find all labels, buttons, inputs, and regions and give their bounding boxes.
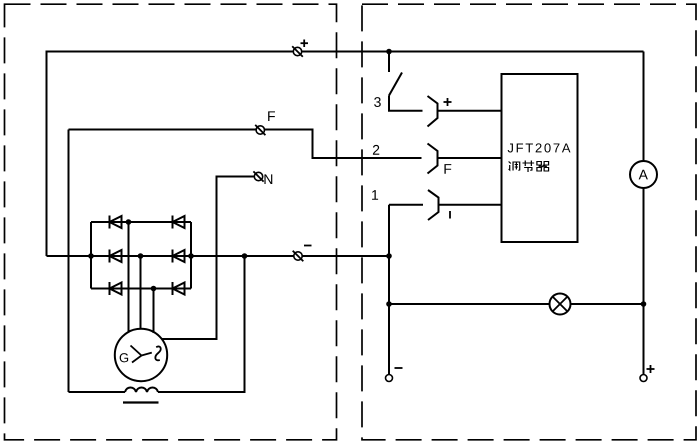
- wire phase 2 (bridge to stator): [140, 256, 142, 329]
- wire bridge row 1: [91, 221, 191, 223]
- terminal + (circle with slash): [292, 46, 303, 57]
- generator star (Y) symbol: [131, 346, 152, 363]
- label F: [268, 111, 275, 121]
- field coil core line: [123, 401, 159, 403]
- junction node minus bus/drop: [386, 253, 392, 259]
- label 2: [373, 145, 379, 155]
- ammeter A: [630, 161, 657, 188]
- wire connector 2 to regulator: [438, 157, 502, 159]
- junction node phase3/row3: [151, 286, 157, 292]
- label + (battery plus): [647, 365, 655, 373]
- diode D5 (row3 left): [110, 282, 122, 295]
- wire connector 1 to regulator: [439, 204, 502, 206]
- connector 1 socket: [428, 190, 439, 220]
- label regulator (Chinese: tiao jie qi): [509, 161, 549, 173]
- wire bridge row 3: [91, 288, 191, 290]
- vehicle compartment dashed enclosure: [362, 4, 696, 440]
- wire regulator minus drop to battery minus: [388, 205, 390, 375]
- wire field coil return to minus bus: [158, 256, 245, 392]
- diode D4 (row2 right): [173, 250, 185, 263]
- connector 3 socket: [428, 96, 438, 127]
- label 3: [374, 97, 381, 107]
- charge indicator lamp: [550, 294, 571, 315]
- label A (ammeter): [639, 170, 648, 180]
- diode D1 (row1 left): [110, 216, 122, 229]
- label 1: [372, 190, 378, 200]
- ignition switch blade: [389, 73, 402, 96]
- terminal N (circle with slash): [253, 171, 263, 181]
- terminal - (circle with slash): [293, 251, 304, 262]
- junction node lamp row right: [641, 301, 647, 307]
- battery minus terminal: [386, 375, 393, 382]
- connector 2 socket: [428, 144, 438, 174]
- diode D3 (row2 left): [110, 250, 122, 263]
- label JFT207A: [508, 143, 571, 152]
- generator letter G: [120, 353, 128, 362]
- battery plus terminal: [640, 375, 647, 382]
- rectifier bridge right rail: [190, 222, 192, 289]
- wire F dropper to field coil: [68, 130, 70, 393]
- wire connector 1 feed: [389, 204, 423, 206]
- label tick (regulator minus input): [449, 211, 451, 219]
- wire connector 3 to regulator: [438, 110, 502, 112]
- wire F (field wire from field coil to connector 2): [69, 130, 422, 159]
- field coil L (rotor winding): [125, 387, 158, 392]
- diode D6 (row3 right): [173, 282, 185, 295]
- wire switch stub from B+: [388, 52, 390, 73]
- label F (regulator field output): [444, 164, 451, 174]
- wire phase 3 (bridge to stator): [153, 289, 155, 334]
- label + (regulator plus input): [444, 98, 452, 106]
- junction node switch/B+: [386, 49, 392, 55]
- wire N (neutral tap from generator star point): [162, 177, 255, 340]
- wire field coil bottom left: [69, 391, 126, 393]
- label - (minus at mid terminal): [304, 245, 312, 247]
- wire charge lamp row: [389, 303, 644, 305]
- wire switch to connector 3: [389, 96, 423, 111]
- junction node right rail/row2: [188, 253, 194, 259]
- generator AC tilde: [155, 346, 160, 360]
- label N: [264, 174, 272, 184]
- wire phase 1 (bridge to stator): [128, 222, 130, 332]
- wire ammeter to battery plus: [643, 188, 645, 375]
- junction node phase2/row2: [138, 253, 144, 259]
- generator compartment dashed enclosure: [5, 4, 337, 440]
- wire B+ down to ammeter: [643, 52, 645, 162]
- rectifier bridge left rail: [90, 222, 92, 289]
- label + (at top terminal): [301, 40, 309, 48]
- generator G (3-phase AC generator circle): [115, 329, 167, 381]
- terminal F (circle with slash): [255, 125, 265, 135]
- wire B+ bus (rectifier + output, top run to right compartment): [47, 52, 644, 257]
- junction node lamp row left: [386, 301, 392, 307]
- diode D2 (row1 right): [173, 216, 185, 229]
- junction node field return/minus bus: [242, 253, 248, 259]
- label - (battery minus): [395, 367, 403, 369]
- junction node phase1/row1: [126, 219, 132, 225]
- regulator box JFT207A: [502, 74, 578, 242]
- wire - bus (rectifier minus row, runs right to vehicle side): [47, 255, 390, 257]
- junction node left rail/row2: [88, 253, 94, 259]
